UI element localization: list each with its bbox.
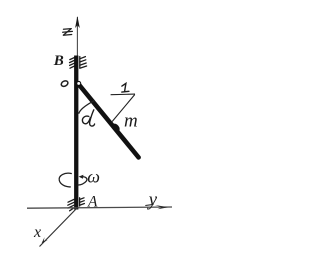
- x-axis line: [39, 207, 77, 246]
- label l (1): [122, 83, 129, 92]
- svg-text:y: y: [147, 189, 158, 210]
- omega rotation hook right with arrow: [77, 177, 87, 185]
- svg-text:ω: ω: [87, 166, 100, 186]
- y-axis line: [27, 207, 172, 208]
- label Z: [63, 29, 73, 36]
- y label dash: [145, 204, 153, 205]
- svg-text:x: x: [33, 224, 41, 241]
- leader line diagonal: [112, 95, 135, 122]
- y-axis arrowhead: [155, 205, 169, 209]
- z-axis arrowhead: [75, 16, 80, 28]
- bearing B hatching left: [70, 58, 75, 69]
- bearing A hatching right: [80, 198, 85, 206]
- leader line bar for l: [111, 93, 135, 96]
- label O: [60, 80, 69, 88]
- pendulum rod: [79, 84, 139, 157]
- svg-text:B: B: [53, 53, 64, 69]
- label alpha: [82, 110, 94, 126]
- omega rotation arc left: [59, 173, 72, 187]
- svg-text:m: m: [124, 111, 138, 132]
- bearing A hatching left: [68, 199, 74, 210]
- vertical rod: [74, 55, 78, 209]
- mass bulge on pendulum rod: [110, 122, 121, 133]
- pivot circle O: [77, 81, 81, 85]
- angle arc alpha: [79, 100, 95, 114]
- x-axis arrowhead: [42, 237, 48, 243]
- z-axis thin line: [76, 17, 78, 56]
- bearing B hatching right: [80, 56, 87, 68]
